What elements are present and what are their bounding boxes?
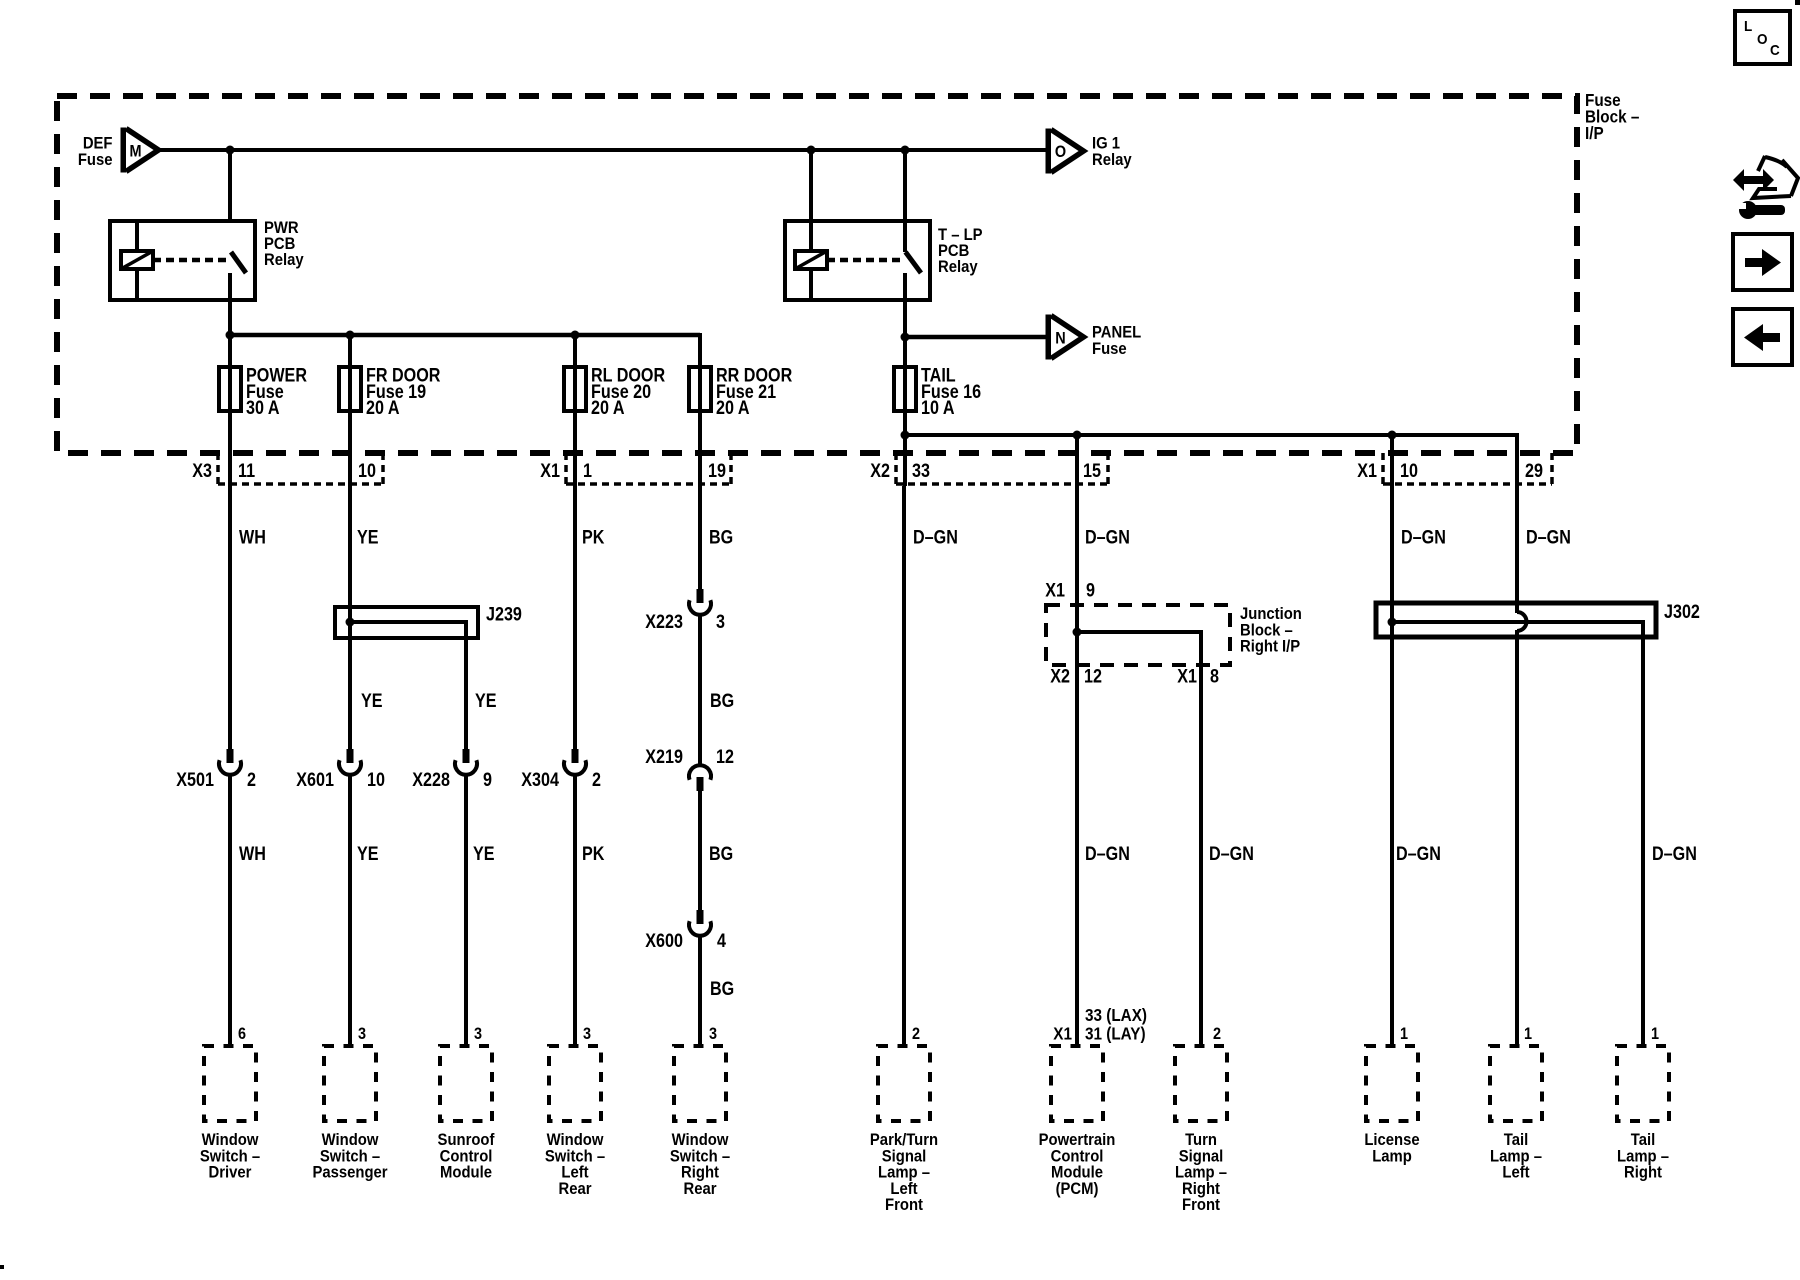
svg-text:Relay: Relay: [1092, 151, 1132, 169]
connector X3 pin row: [192, 453, 383, 484]
svg-text:Switch –: Switch –: [545, 1148, 605, 1166]
svg-text:N: N: [1055, 329, 1065, 347]
node: bus junction at RL DOOR fuse: [571, 331, 580, 340]
relay T-LP PCB Relay: [785, 221, 983, 300]
svg-text:10 A: 10 A: [921, 397, 955, 419]
svg-text:29: 29: [1525, 460, 1543, 482]
svg-text:33 (LAX): 33 (LAX): [1085, 1005, 1147, 1025]
svg-text:20 A: 20 A: [591, 397, 625, 419]
nav arrow right box: [1733, 234, 1792, 290]
wire: PWR relay output down through POWER fuse: [228, 273, 232, 486]
svg-text:Fuse: Fuse: [1092, 340, 1127, 358]
wire: D-GN from pin 10 through J302 to license lamp: [1390, 486, 1394, 1046]
svg-text:YE: YE: [475, 690, 497, 712]
component Sunroof Control Module: [438, 1046, 496, 1182]
node: bus junction at FR DOOR fuse: [346, 331, 355, 340]
svg-text:10: 10: [1400, 460, 1418, 482]
svg-text:9: 9: [483, 769, 492, 791]
svg-text:PK: PK: [582, 526, 605, 548]
connector X223 pin 3: [645, 589, 725, 632]
svg-text:Lamp: Lamp: [1372, 1148, 1412, 1166]
svg-text:3: 3: [583, 1025, 591, 1043]
svg-text:X501: X501: [176, 769, 214, 791]
svg-text:3: 3: [716, 611, 725, 633]
svg-text:Window: Window: [547, 1131, 604, 1149]
hotlink tool icon (double arrow, arrow outline, wrench): [1733, 156, 1798, 219]
svg-text:Junction: Junction: [1240, 605, 1302, 623]
fusible link DEF Fuse (M): [78, 128, 159, 173]
svg-text:IG 1: IG 1: [1092, 135, 1120, 153]
fuse FR DOOR Fuse 19 20 A: [339, 364, 441, 418]
triangle IG 1 Relay (O): [1046, 129, 1132, 174]
wire: drop to RR DOOR fuse: [698, 333, 702, 486]
svg-text:YE: YE: [361, 690, 383, 712]
svg-text:31 (LAY): 31 (LAY): [1085, 1023, 1146, 1043]
wire: PK from X304 to window switch left rear: [573, 776, 577, 1046]
svg-text:Front: Front: [1182, 1197, 1221, 1215]
corner mark top right: [1795, 0, 1800, 5]
svg-text:Sunroof: Sunroof: [438, 1131, 496, 1149]
svg-text:2: 2: [1213, 1025, 1221, 1043]
svg-text:D–GN: D–GN: [1401, 526, 1446, 548]
wire: fuse bus: [230, 333, 700, 338]
node: junction at pin 33 drop: [901, 431, 910, 440]
component Tail Lamp Left: [1490, 1046, 1542, 1182]
svg-text:X2: X2: [870, 460, 890, 482]
svg-text:11: 11: [238, 460, 255, 482]
svg-text:BG: BG: [709, 843, 733, 865]
svg-text:Front: Front: [885, 1197, 924, 1215]
svg-text:I/P: I/P: [1585, 123, 1604, 143]
svg-text:Relay: Relay: [938, 258, 978, 276]
wire: main feed from DEF fuse to IG 1 relay: [159, 148, 1046, 152]
component Window Switch Left Rear: [545, 1046, 605, 1198]
svg-text:Tail: Tail: [1504, 1131, 1528, 1149]
svg-text:X2: X2: [1050, 665, 1070, 687]
wire: drop to FR DOOR fuse: [348, 335, 352, 486]
svg-text:Switch –: Switch –: [320, 1148, 380, 1166]
component Window Switch Passenger: [312, 1046, 387, 1182]
svg-text:Rear: Rear: [558, 1180, 591, 1198]
wire: D-GN from pin 15 through junction block to PCM: [1075, 486, 1079, 1046]
svg-text:X1: X1: [1357, 460, 1377, 482]
component License Lamp: [1364, 1046, 1420, 1166]
fuse block I/P dashed border: [57, 96, 1577, 453]
svg-text:3: 3: [358, 1025, 366, 1043]
node: junction at PWR relay drop: [226, 146, 235, 155]
svg-text:YE: YE: [357, 843, 379, 865]
svg-text:20 A: 20 A: [716, 397, 750, 419]
wire: PK from pin 1 to X304: [573, 486, 577, 749]
wire: YE branch from J239 to X228: [464, 638, 468, 749]
wire: drop to pin 29: [1515, 433, 1519, 486]
svg-text:Signal: Signal: [1179, 1148, 1224, 1166]
svg-text:M: M: [129, 142, 141, 160]
svg-text:X1: X1: [1053, 1023, 1072, 1043]
fuse TAIL Fuse 16 10 A: [894, 364, 981, 418]
wire: YE from pin 10 through J239 to X601: [348, 486, 352, 749]
connector X600 pin 4: [645, 910, 726, 951]
svg-text:Window: Window: [202, 1131, 259, 1149]
connector X2 pin row: [870, 453, 1108, 484]
svg-text:Fuse: Fuse: [78, 151, 113, 169]
svg-text:BG: BG: [710, 690, 734, 712]
wire: drop to RL DOOR fuse: [573, 335, 577, 486]
svg-text:19: 19: [708, 460, 726, 482]
svg-text:D–GN: D–GN: [1652, 843, 1697, 865]
pin X1 8 junction block: [1177, 665, 1219, 687]
svg-text:Tail: Tail: [1631, 1131, 1655, 1149]
label Fuse Block - I/P: [1585, 90, 1639, 143]
svg-text:6: 6: [238, 1025, 246, 1043]
connector X1 pin row: [1357, 453, 1552, 484]
wire: BG from X223 to X219: [698, 616, 702, 764]
node: bus junction at POWER fuse: [226, 331, 235, 340]
svg-text:X1: X1: [1045, 579, 1065, 601]
svg-text:Left: Left: [561, 1164, 589, 1182]
LOC navigation box: [1735, 11, 1790, 64]
svg-text:Module: Module: [440, 1164, 492, 1182]
fuse POWER Fuse 30 A: [219, 364, 307, 418]
node: junction at T-LP coil drop: [807, 146, 816, 155]
svg-text:Right I/P: Right I/P: [1240, 638, 1300, 656]
svg-text:Turn: Turn: [1185, 1131, 1217, 1149]
wire: branch to PANEL fuse: [905, 335, 1046, 340]
pin X1 9 junction block: [1045, 579, 1095, 601]
node: junction at PANEL fuse branch: [901, 333, 910, 342]
svg-text:BG: BG: [710, 978, 734, 1000]
svg-text:15: 15: [1083, 460, 1101, 482]
connector X304 pin 2: [521, 749, 601, 790]
svg-text:9: 9: [1086, 579, 1095, 601]
svg-text:Powertrain: Powertrain: [1039, 1131, 1116, 1149]
svg-text:YE: YE: [357, 526, 379, 548]
svg-text:12: 12: [716, 746, 734, 768]
svg-text:1: 1: [583, 460, 592, 482]
nav arrow left box: [1733, 309, 1792, 365]
pin X1 33(LAX)/31(LAY) PCM: [1053, 1005, 1147, 1044]
triangle PANEL Fuse (N): [1046, 315, 1142, 360]
svg-text:D–GN: D–GN: [1085, 843, 1130, 865]
svg-text:X601: X601: [296, 769, 334, 791]
svg-text:2: 2: [247, 769, 256, 791]
svg-text:2: 2: [592, 769, 601, 791]
wire: feed into T-LP relay switch: [903, 150, 907, 252]
wire: D-GN from pin 29 to tail lamp left (hops over J302 branch): [1515, 486, 1519, 613]
svg-text:20 A: 20 A: [366, 397, 400, 419]
svg-text:YE: YE: [473, 843, 495, 865]
wire: WH from X501 to window switch driver: [228, 776, 232, 1046]
component Window Switch Driver: [200, 1046, 260, 1182]
svg-text:X223: X223: [645, 611, 683, 633]
svg-text:Module: Module: [1051, 1164, 1103, 1182]
svg-text:Block –: Block –: [1240, 622, 1293, 640]
svg-text:License: License: [1364, 1131, 1420, 1149]
relay PWR PCB Relay: [110, 219, 304, 300]
svg-text:Lamp –: Lamp –: [878, 1164, 930, 1182]
component Powertrain Control Module: [1039, 1046, 1116, 1198]
svg-text:1: 1: [1524, 1025, 1532, 1043]
wire: branch from J302 to tail lamp right: [1392, 622, 1643, 1046]
svg-text:X1: X1: [540, 460, 560, 482]
svg-text:10: 10: [367, 769, 385, 791]
fuse RL DOOR Fuse 20 20 A: [564, 364, 665, 418]
svg-text:J239: J239: [486, 603, 522, 625]
wire: crossover hop at J302 branch: [1517, 612, 1527, 631]
svg-text:30 A: 30 A: [246, 397, 280, 419]
svg-text:Switch –: Switch –: [670, 1148, 730, 1166]
node: junction at pin 15 drop: [1073, 431, 1082, 440]
svg-text:Right: Right: [1182, 1180, 1221, 1198]
svg-text:D–GN: D–GN: [1526, 526, 1571, 548]
wire: BG from pin 19 to X223: [698, 486, 702, 589]
svg-text:D–GN: D–GN: [913, 526, 958, 548]
svg-text:X228: X228: [412, 769, 450, 791]
svg-text:Park/Turn: Park/Turn: [870, 1131, 938, 1149]
svg-text:X3: X3: [192, 460, 212, 482]
svg-text:Left: Left: [1502, 1164, 1530, 1182]
svg-text:PANEL: PANEL: [1092, 324, 1142, 342]
wire: D-GN from pin 33 to park/turn lamp: [902, 486, 906, 1046]
svg-text:WH: WH: [239, 843, 266, 865]
svg-text:4: 4: [717, 930, 726, 952]
wire: tail feed branch across fuse block: [905, 433, 1517, 437]
svg-text:L: L: [1744, 18, 1753, 35]
svg-text:C: C: [1770, 42, 1780, 59]
splice J302: [1376, 601, 1700, 637]
svg-text:Relay: Relay: [264, 251, 304, 269]
svg-text:Rear: Rear: [683, 1180, 716, 1198]
svg-text:D–GN: D–GN: [1209, 843, 1254, 865]
svg-text:Lamp –: Lamp –: [1490, 1148, 1542, 1166]
svg-text:Right: Right: [681, 1164, 720, 1182]
wire: branch from junction block to turn signal lamp: [1077, 632, 1201, 1046]
connector X501 pin 2: [176, 749, 256, 790]
svg-text:3: 3: [709, 1025, 717, 1043]
svg-text:(PCM): (PCM): [1056, 1180, 1099, 1198]
svg-text:3: 3: [474, 1025, 482, 1043]
connector X601 pin 10: [296, 749, 385, 790]
svg-text:Switch –: Switch –: [200, 1148, 260, 1166]
svg-text:Lamp –: Lamp –: [1175, 1164, 1227, 1182]
svg-text:D–GN: D–GN: [1085, 526, 1130, 548]
wire: T-LP switch output down to TAIL fuse: [903, 273, 907, 486]
node: junction inside J302: [1388, 618, 1397, 627]
svg-text:2: 2: [912, 1025, 920, 1043]
node: junction inside junction block: [1073, 628, 1082, 637]
svg-text:Right: Right: [1624, 1164, 1663, 1182]
fuse RR DOOR Fuse 21 20 A: [689, 364, 792, 418]
svg-text:O: O: [1757, 31, 1767, 48]
wire: feed into PWR relay: [228, 150, 232, 223]
svg-text:10: 10: [358, 460, 376, 482]
node: junction at T-LP switch drop: [901, 146, 910, 155]
wire: BG from X219 to X600: [698, 790, 702, 910]
svg-text:33: 33: [912, 460, 930, 482]
svg-text:PK: PK: [582, 843, 605, 865]
svg-text:Passenger: Passenger: [312, 1164, 387, 1182]
svg-text:O: O: [1055, 143, 1066, 161]
wire: YE from X601 to window switch passenger: [348, 776, 352, 1046]
wire: YE from X228 to sunroof control module: [464, 776, 468, 1046]
svg-text:Control: Control: [1051, 1148, 1104, 1166]
svg-text:WH: WH: [239, 526, 266, 548]
svg-text:Control: Control: [440, 1148, 493, 1166]
svg-text:DEF: DEF: [83, 135, 113, 153]
junction block right I/P dashed box: [1046, 605, 1302, 665]
connector X228 pin 9: [412, 749, 492, 790]
svg-text:1: 1: [1400, 1025, 1408, 1043]
component Park/Turn Signal Lamp Left Front: [870, 1046, 938, 1214]
svg-text:1: 1: [1651, 1025, 1659, 1043]
node: junction at pin 10 drop: [1388, 431, 1397, 440]
wire: drop to pin 15: [1075, 435, 1079, 486]
splice J239: [335, 603, 522, 640]
svg-text:Driver: Driver: [209, 1164, 252, 1182]
svg-text:X304: X304: [521, 769, 559, 791]
wire: drop to pin 10: [1390, 435, 1394, 486]
svg-text:Left: Left: [890, 1180, 918, 1198]
component Tail Lamp Right: [1617, 1046, 1669, 1182]
component Turn Signal Lamp Right Front: [1175, 1046, 1227, 1214]
wire: BG from X600 to window switch right rear: [698, 937, 702, 1046]
page mark bottom left: [0, 1265, 4, 1269]
svg-text:BG: BG: [709, 526, 733, 548]
svg-text:Lamp –: Lamp –: [1617, 1148, 1669, 1166]
svg-text:Window: Window: [322, 1131, 379, 1149]
connector X219 pin 12 (flipped): [645, 746, 734, 791]
svg-text:D–GN: D–GN: [1396, 843, 1441, 865]
component Window Switch Right Rear: [670, 1046, 730, 1198]
svg-text:X1: X1: [1177, 665, 1197, 687]
svg-text:Window: Window: [672, 1131, 729, 1149]
pin X2 12 junction block: [1050, 665, 1102, 687]
svg-text:J302: J302: [1664, 601, 1700, 623]
svg-text:X600: X600: [645, 930, 683, 952]
svg-text:12: 12: [1084, 665, 1102, 687]
svg-text:8: 8: [1210, 665, 1219, 687]
svg-text:X219: X219: [645, 746, 683, 768]
wire: WH from pin 11 to X501: [228, 486, 232, 749]
svg-text:Signal: Signal: [882, 1148, 927, 1166]
wire: feed into T-LP relay coil: [809, 150, 813, 251]
connector X1 pin row: [540, 453, 731, 484]
